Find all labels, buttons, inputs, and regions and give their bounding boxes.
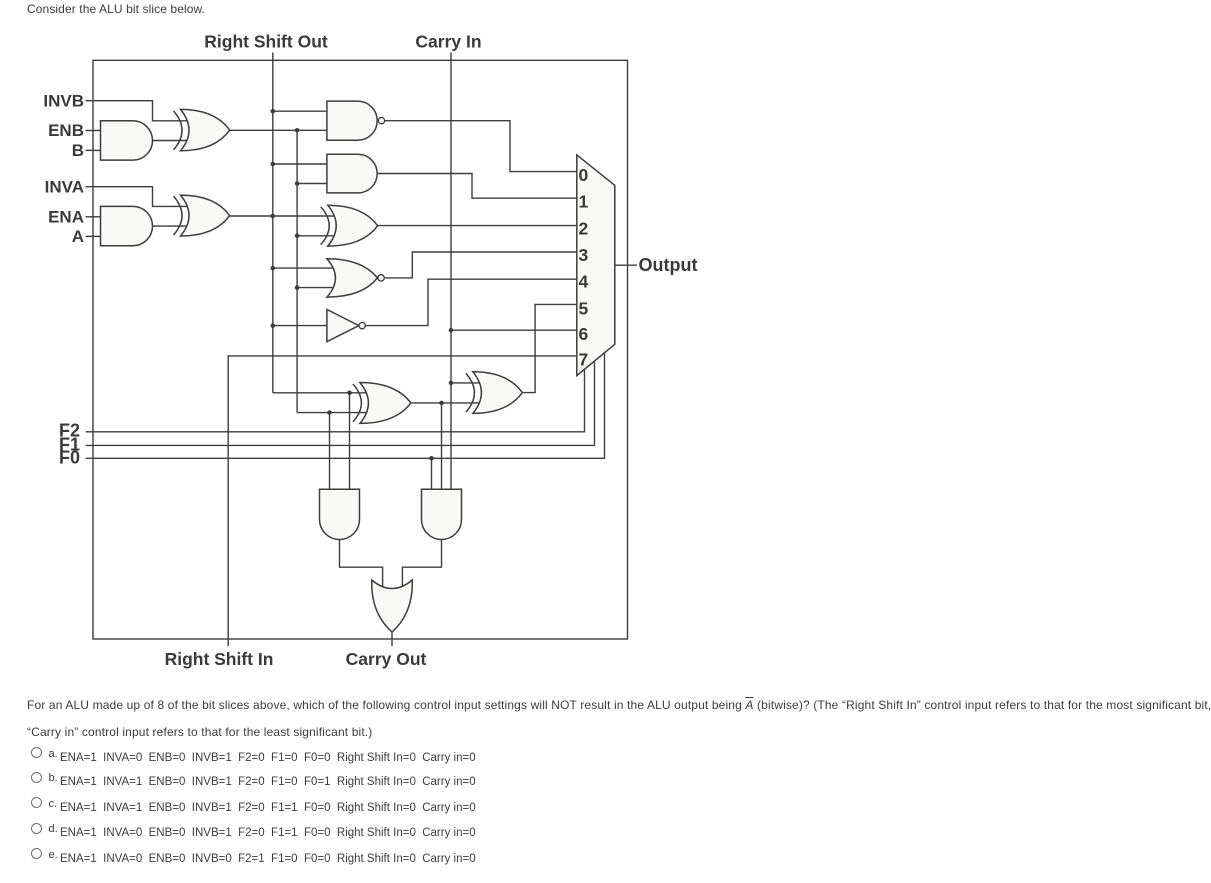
node net-A / AND-L tap — [347, 391, 352, 396]
wire mux output — [615, 264, 637, 266]
xor-gate X2 (A invert) — [174, 196, 183, 235]
wire Carry In rail — [450, 53, 452, 490]
wire net-B tap to AND3 — [297, 183, 329, 185]
wire A input — [86, 235, 102, 237]
wire net-A tap to NOR — [273, 267, 334, 269]
svg-text:F0: F0 — [59, 448, 80, 468]
and-gate G2 (ENA·A) — [101, 206, 153, 245]
nor-gate G5 (A NOR B) — [327, 259, 378, 297]
node net-A / NAND tap — [271, 109, 276, 114]
or-gate G9 (carry out) — [372, 580, 413, 632]
svg-text:Carry Out: Carry Out — [346, 649, 427, 669]
bit-slice enclosure box — [93, 60, 628, 639]
wire INVA input — [86, 187, 188, 207]
wire net-A tap to AND3 — [273, 163, 329, 165]
svg-text:5: 5 — [579, 298, 589, 318]
svg-text:Output: Output — [639, 255, 698, 275]
mux U1 (8-to-1 multiplexer) — [577, 155, 615, 376]
wire XOR2 output (net A) to XOR3 — [230, 215, 335, 217]
wire Carry In tap to XOR-B — [451, 382, 479, 384]
svg-text:B: B — [72, 141, 84, 160]
wire net-A drop to AND-L — [349, 393, 351, 490]
wire XOR3 output to mux input 2 — [378, 225, 577, 227]
wire sum output to mux input 5 — [522, 304, 577, 392]
svg-text:3: 3 — [579, 245, 589, 265]
xor-gate X3 (A XOR B) — [321, 207, 330, 245]
wire AND2 output to XOR2 — [150, 225, 187, 227]
wire F0 drop to AND-R — [431, 458, 433, 489]
node net-B / AND-L tap — [327, 410, 332, 415]
node net-A / AND3 tap — [271, 162, 276, 167]
node net-B / AND3 tap — [295, 181, 300, 186]
xor-gate X1 (B invert) — [174, 111, 183, 150]
node Carry In / XOR-B tap — [449, 381, 454, 386]
wire XOR-A output to XOR-B — [411, 402, 479, 404]
node net-B / NOR tap — [295, 285, 300, 290]
wire INVB input — [86, 101, 188, 121]
wire Right Shift In to mux input 7 — [228, 356, 577, 646]
svg-text:INVB: INVB — [43, 91, 84, 110]
wire net-A tap to NAND — [273, 110, 329, 112]
node XOR-A output / AND-R tap — [439, 401, 444, 406]
wire F2 select line — [86, 370, 585, 432]
wire AND3 output to mux input 1 — [377, 174, 577, 199]
svg-text:INVA: INVA — [45, 177, 84, 196]
svg-text:ENB: ENB — [48, 121, 84, 140]
and-gate G1 (ENB·B) — [101, 121, 153, 160]
wire AND1 output to XOR1 — [150, 140, 187, 142]
nand-gate G3 (A NAND B) — [327, 101, 377, 140]
and-gate G8 (carry propagate) — [422, 489, 462, 539]
wire XOR1 output (net B) to NAND — [230, 129, 328, 131]
node net-A / XOR2 junction — [271, 214, 276, 219]
wire B input — [86, 149, 102, 151]
wire ENB input — [86, 130, 102, 132]
svg-text:A: A — [72, 227, 84, 246]
svg-text:1: 1 — [579, 192, 589, 212]
svg-text:6: 6 — [579, 324, 589, 344]
node F0 / AND-R tap — [429, 456, 434, 461]
wire net-B drop to AND-L — [329, 413, 331, 490]
and-gate G4 (A AND B) — [327, 154, 377, 193]
node net-B / XOR3 tap — [295, 234, 300, 239]
wire net-B vertical rail — [296, 130, 298, 412]
wire AND-L output to OR — [340, 540, 383, 588]
node net-A / inverter tap — [271, 323, 276, 328]
svg-text:ENA: ENA — [48, 207, 84, 226]
svg-text:7: 7 — [579, 350, 589, 370]
wire net-B tap to NOR — [297, 287, 333, 289]
node net-B / XOR1 junction — [295, 128, 300, 133]
wire NOR output to mux input 3 — [385, 252, 577, 278]
wire AND-R output to OR — [402, 540, 441, 588]
node net-A / NOR tap — [271, 266, 276, 271]
svg-text:4: 4 — [579, 272, 589, 292]
wire NAND output to mux input 0 — [385, 121, 577, 172]
svg-text:0: 0 — [579, 165, 589, 185]
wire net-A foot into adder XOR — [273, 392, 366, 394]
node Carry In / mux-6 tap — [449, 328, 454, 333]
wire net-B foot into adder XOR — [297, 412, 366, 414]
and-gate G7 (carry generate A·B) — [320, 489, 360, 539]
wire ENA input — [86, 216, 102, 218]
svg-text:Right Shift In: Right Shift In — [165, 649, 274, 669]
wire net-A vertical rail (Right Shift Out line) — [272, 53, 274, 393]
wire F1 select line — [86, 361, 595, 445]
xor-gate X5 (sum XOR carry) — [466, 373, 475, 412]
wire inverter output to mux input 4 — [365, 279, 577, 325]
wire net-B tap to XOR3 — [297, 235, 335, 237]
svg-text:2: 2 — [579, 219, 589, 239]
svg-text:Right Shift Out: Right Shift Out — [204, 32, 328, 52]
wire Carry In tap to mux input 6 — [451, 329, 577, 331]
svg-text:Carry In: Carry In — [415, 32, 481, 52]
wire F0 select line — [86, 353, 605, 458]
xor-gate X4 (adder A XOR B) — [353, 384, 362, 422]
wire net-A tap to inverter — [273, 325, 328, 327]
wire Carry Out stub — [391, 631, 393, 646]
inverter G6 (NOT A) — [327, 310, 359, 342]
wire XOR-A output drop to AND-R — [441, 403, 443, 490]
